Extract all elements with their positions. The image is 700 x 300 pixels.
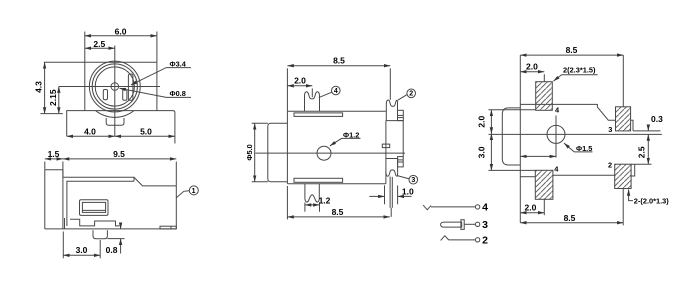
- svg-text:4: 4: [334, 88, 338, 95]
- svg-text:2.5: 2.5: [93, 39, 105, 49]
- svg-text:8.5: 8.5: [332, 207, 344, 217]
- svg-text:0.8: 0.8: [106, 245, 118, 255]
- svg-text:Φ1.5: Φ1.5: [576, 144, 592, 153]
- svg-text:5.0: 5.0: [140, 126, 152, 136]
- svg-text:3.0: 3.0: [477, 146, 487, 158]
- svg-text:8.5: 8.5: [564, 213, 576, 223]
- svg-text:4.0: 4.0: [84, 126, 96, 136]
- svg-text:2.15: 2.15: [48, 89, 58, 106]
- svg-text:Φ3.4: Φ3.4: [170, 59, 187, 68]
- svg-text:Φ5.0: Φ5.0: [245, 144, 254, 160]
- svg-text:4.3: 4.3: [34, 81, 44, 93]
- svg-text:1.5: 1.5: [48, 149, 60, 159]
- svg-text:2: 2: [482, 234, 488, 246]
- svg-text:Φ1.2: Φ1.2: [343, 130, 359, 139]
- svg-text:4: 4: [555, 106, 560, 115]
- svg-text:1.0: 1.0: [402, 187, 414, 197]
- svg-text:8.5: 8.5: [333, 56, 345, 66]
- svg-text:3: 3: [482, 219, 488, 231]
- svg-text:2(2.3*1.5): 2(2.3*1.5): [563, 66, 596, 75]
- svg-text:2.0: 2.0: [526, 61, 538, 71]
- svg-text:9.5: 9.5: [113, 149, 125, 159]
- svg-text:2: 2: [608, 161, 612, 170]
- svg-text:0.3: 0.3: [651, 114, 663, 124]
- svg-text:2-(2.0*1.3): 2-(2.0*1.3): [634, 197, 669, 206]
- svg-text:3: 3: [411, 177, 415, 184]
- svg-text:8.5: 8.5: [566, 45, 578, 55]
- svg-text:6.0: 6.0: [115, 27, 127, 37]
- svg-text:1.2: 1.2: [319, 196, 331, 206]
- svg-text:2.0: 2.0: [477, 116, 487, 128]
- svg-text:2.5: 2.5: [637, 146, 647, 158]
- svg-text:2.0: 2.0: [524, 203, 536, 213]
- svg-text:1: 1: [192, 188, 196, 195]
- svg-text:2.0: 2.0: [294, 75, 306, 85]
- svg-text:4: 4: [554, 165, 559, 174]
- svg-text:3: 3: [608, 125, 612, 134]
- svg-text:4: 4: [482, 202, 488, 214]
- svg-text:2: 2: [409, 91, 413, 98]
- svg-text:Φ0.8: Φ0.8: [170, 89, 186, 98]
- svg-text:3.0: 3.0: [76, 245, 88, 255]
